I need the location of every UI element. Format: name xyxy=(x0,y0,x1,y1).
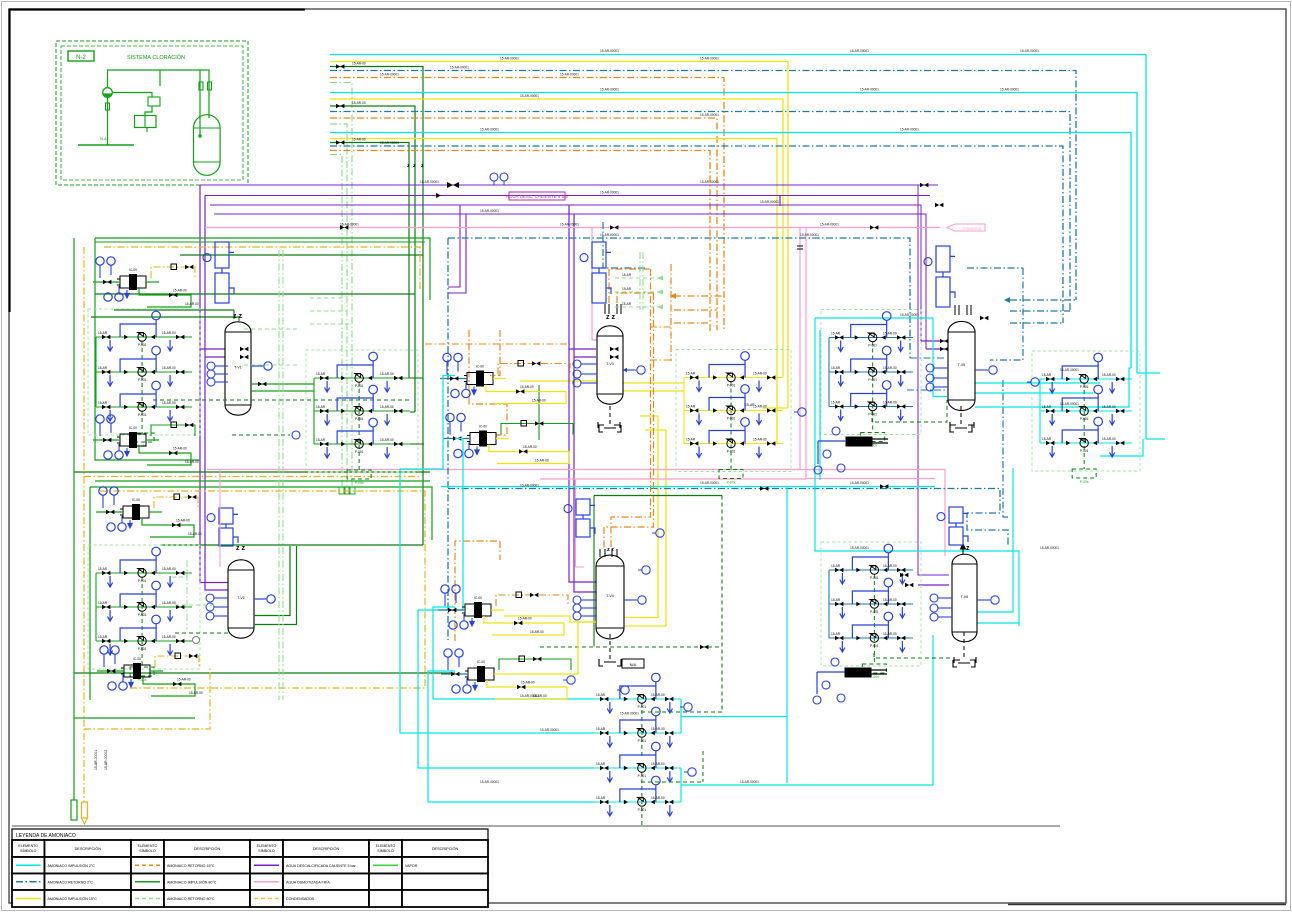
svg-text:P-001: P-001 xyxy=(638,808,647,812)
yellow pipe E8 to vessel4 xyxy=(507,622,596,674)
svg-text:15-AR-00001: 15-AR-00001 xyxy=(800,233,819,237)
teal dd drop mid xyxy=(603,222,645,268)
vessel1 outlet pipes xyxy=(251,383,314,385)
vessel V4 support xyxy=(609,634,611,659)
green dashed bottom right L xyxy=(874,653,950,658)
svg-text:15-AR-00001: 15-AR-00001 xyxy=(520,94,539,98)
yellow pipe E7 to vessel4 xyxy=(504,616,596,622)
left block1 orange box xyxy=(104,247,420,290)
svg-text:15-AR-00: 15-AR-00 xyxy=(162,601,176,605)
svg-text:T-V2: T-V2 xyxy=(237,596,244,600)
vessel V6 xyxy=(952,554,977,642)
svg-text:15-AR-00: 15-AR-00 xyxy=(753,372,767,376)
svg-text:15-AR-00: 15-AR-00 xyxy=(162,401,176,405)
svg-text:ELEMENTO: ELEMENTO xyxy=(138,844,158,848)
pump group PG3 xyxy=(676,350,791,485)
svg-text:15-AR-00: 15-AR-00 xyxy=(162,567,176,571)
svg-text:15-AR: 15-AR xyxy=(316,372,326,376)
svg-text:15-AR-00: 15-AR-00 xyxy=(521,681,535,685)
svg-text:AMONIACO IMPULSIÓN 15°C: AMONIACO IMPULSIÓN 15°C xyxy=(48,896,98,901)
svg-text:15-AR-00: 15-AR-00 xyxy=(1102,437,1116,441)
teal stub labels right top xyxy=(1010,299,1076,301)
bus group 1 teal retorno xyxy=(330,71,1076,301)
svg-text:15-AR-00: 15-AR-00 xyxy=(883,332,897,336)
svg-text:15-AR: 15-AR xyxy=(1042,405,1052,409)
svg-text:15-AR: 15-AR xyxy=(1042,373,1052,377)
green stub rows right of vessel3 xyxy=(615,277,660,279)
purple drops mid-left to E5 xyxy=(448,205,460,287)
green capsule end xyxy=(71,800,77,820)
purple agua descalcificada lines xyxy=(200,184,938,186)
svg-text:DESCRIPCIÓN: DESCRIPCIÓN xyxy=(194,846,221,851)
svg-text:15-AR: 15-AR xyxy=(596,693,606,697)
svg-text:AGUA DESCALCIFICADA CALIENTE 5: AGUA DESCALCIFICADA CALIENTE 5 bar xyxy=(286,864,357,868)
svg-text:15-AR-00: 15-AR-00 xyxy=(523,445,537,449)
bus group 3 orange xyxy=(330,151,710,333)
svg-text:15-AR-00001: 15-AR-00001 xyxy=(700,180,719,184)
svg-text:15-AR-00001: 15-AR-00001 xyxy=(620,712,639,716)
svg-text:ELEMENTO: ELEMENTO xyxy=(376,844,396,848)
svg-text:15-AR: 15-AR xyxy=(831,401,841,405)
svg-text:15-AR-00001: 15-AR-00001 xyxy=(600,49,619,53)
valve marks on purple xyxy=(447,182,459,188)
svg-text:15-AR-00001: 15-AR-00001 xyxy=(1040,546,1059,550)
bus group 3 teal xyxy=(330,146,1063,323)
mini pipe pump to tank xyxy=(112,93,152,98)
svg-text:15-AR-00: 15-AR-00 xyxy=(352,101,366,105)
svg-text:15-AR-00001: 15-AR-00001 xyxy=(450,66,469,70)
violet label box agua xyxy=(509,192,565,200)
pink drop to vessel2 xyxy=(219,470,221,568)
svg-text:P-001: P-001 xyxy=(1080,385,1089,389)
svg-text:P-001: P-001 xyxy=(727,450,736,454)
svg-text:P-00x: P-00x xyxy=(727,481,736,485)
svg-text:15-AR-00: 15-AR-00 xyxy=(176,519,190,523)
exchanger group E5 xyxy=(440,353,570,403)
pink drop to vessel4 xyxy=(576,479,585,567)
svg-text:15-AR-00001: 15-AR-00001 xyxy=(860,88,879,92)
svg-text:15-AR-00: 15-AR-00 xyxy=(162,331,176,335)
green bottom-mid L xyxy=(594,495,722,497)
pump group PG7a xyxy=(594,673,681,759)
svg-text:SÍMBOLO: SÍMBOLO xyxy=(20,849,37,853)
purple stubs into vessel5 xyxy=(921,340,945,342)
teal stub PG4 vessel5 xyxy=(907,389,945,391)
svg-text:15-AR-00001: 15-AR-00001 xyxy=(1000,88,1019,92)
green long line under block2 xyxy=(74,672,455,674)
svg-text:15-AR: 15-AR xyxy=(98,401,108,405)
mini vertical to pump valve xyxy=(107,97,109,145)
svg-text:15-AR-00: 15-AR-00 xyxy=(380,405,394,409)
vessel4 side instruments xyxy=(581,599,596,601)
teal dd right drop x1003 xyxy=(1003,380,1010,517)
bus group 1 cyan impulsion xyxy=(330,55,1146,440)
svg-text:P-001: P-001 xyxy=(638,705,647,709)
green dash PG4 to vessel5 xyxy=(872,400,947,422)
svg-text:15-AR-00: 15-AR-00 xyxy=(651,796,665,800)
svg-text:15-AR-00001: 15-AR-00001 xyxy=(520,694,539,698)
svg-text:P-001: P-001 xyxy=(870,610,879,614)
svg-text:15-AR-00001: 15-AR-00001 xyxy=(380,141,399,145)
legend table xyxy=(12,829,488,840)
box label tag xyxy=(68,51,94,61)
vessel3 right level xyxy=(623,369,636,371)
palegreen risers left pair xyxy=(278,250,280,700)
pump group PG5 xyxy=(1032,351,1140,484)
svg-text:IC-00: IC-00 xyxy=(129,426,137,430)
svg-text:15-AR-00001: 15-AR-00001 xyxy=(850,481,869,485)
bus group 2 green xyxy=(330,106,415,412)
exchanger small right-bottom xyxy=(845,668,887,677)
bus group 3 cyan xyxy=(330,133,1131,369)
svg-text:15-AR-00: 15-AR-00 xyxy=(651,727,665,731)
bus group 3 palegreen xyxy=(330,155,342,488)
svg-text:15-AR-00: 15-AR-00 xyxy=(173,447,187,451)
vessel1 level stub xyxy=(251,365,263,367)
vessel2 level stub xyxy=(254,598,266,600)
svg-text:15-AR-00001: 15-AR-00001 xyxy=(480,780,499,784)
cyan feed E5 to PG7 row2 xyxy=(400,376,594,734)
svg-text:N-2: N-2 xyxy=(76,55,86,61)
vessel V5 support xyxy=(960,406,962,425)
svg-text:z: z xyxy=(421,163,424,169)
svg-text:DESCRIPCIÓN: DESCRIPCIÓN xyxy=(75,846,102,851)
bus group 1 yellow xyxy=(330,62,788,409)
svg-text:N.A.: N.A. xyxy=(100,136,108,141)
mini vessel xyxy=(194,115,221,176)
svg-text:P-001: P-001 xyxy=(355,384,364,388)
vessel2 outlet pipes xyxy=(254,546,290,616)
svg-text:15-AR-00: 15-AR-00 xyxy=(883,632,897,636)
yellow feed vessel3 left xyxy=(520,380,597,382)
pump group PG7b xyxy=(594,742,681,828)
bus group 3 green xyxy=(330,143,409,379)
svg-text:SISTEMA CLORACIÓN: SISTEMA CLORACIÓN xyxy=(127,54,185,61)
svg-text:P-001: P-001 xyxy=(138,343,147,347)
vessel4 nozzle ticks xyxy=(600,549,617,557)
svg-text:T-V3: T-V3 xyxy=(606,362,613,366)
cyan feed E7 to PG7 row1 xyxy=(433,607,594,699)
svg-text:CONDENSADOS: CONDENSADOS xyxy=(286,897,315,901)
green headers above vessel1 xyxy=(180,254,423,256)
orange capsule end xyxy=(82,802,88,818)
svg-text:OSMOSIS: OSMOSIS xyxy=(963,226,982,231)
svg-text:AMONIACO IMPULSIÓN 2°C: AMONIACO IMPULSIÓN 2°C xyxy=(48,863,96,868)
svg-text:SÍMBOLO: SÍMBOLO xyxy=(258,849,275,853)
mini top pipe xyxy=(108,70,210,118)
tick marks at green bus line starts xyxy=(336,64,344,68)
bus group 3 yellow xyxy=(330,139,777,444)
svg-text:P-001: P-001 xyxy=(870,644,879,648)
vessel5 right level xyxy=(975,369,988,371)
svg-text:15-AR: 15-AR xyxy=(831,564,841,568)
svg-text:15-AR-00: 15-AR-00 xyxy=(1102,373,1116,377)
vessel6 top arrow xyxy=(961,544,966,554)
left green boundary riser xyxy=(73,238,75,800)
svg-text:15-AR-00: 15-AR-00 xyxy=(883,366,897,370)
svg-text:15-AR-00: 15-AR-00 xyxy=(520,385,534,389)
mini elbow fitting xyxy=(148,97,160,106)
svg-text:AMONIACO IMPULSIÓN 80°C: AMONIACO IMPULSIÓN 80°C xyxy=(167,879,217,884)
vessel1 side instruments xyxy=(215,365,228,367)
mini valve v1 xyxy=(199,82,203,90)
purple instrument circles xyxy=(490,173,498,181)
svg-text:P-001: P-001 xyxy=(868,413,877,417)
svg-text:15-AR: 15-AR xyxy=(596,727,606,731)
bus group 2 orange xyxy=(330,118,717,330)
svg-text:15-AR-00001: 15-AR-00001 xyxy=(600,191,619,195)
mini baseline xyxy=(78,144,134,146)
svg-text:P-001: P-001 xyxy=(1080,417,1089,421)
pale stubs left of pale risers xyxy=(310,297,342,299)
svg-text:15-AR: 15-AR xyxy=(622,287,632,291)
bus group 2 cyan xyxy=(330,93,1137,374)
pink agua osmotizada line xyxy=(205,227,940,229)
svg-text:VAPOR: VAPOR xyxy=(405,864,418,868)
svg-text:15-AR-00001: 15-AR-00001 xyxy=(1020,49,1039,53)
bus group 2 teal xyxy=(330,112,1070,312)
svg-text:ELEMENTO: ELEMENTO xyxy=(18,844,38,848)
svg-text:LEYENDA DE AMONIACO: LEYENDA DE AMONIACO xyxy=(16,833,76,839)
svg-text:T-V6: T-V6 xyxy=(961,595,968,599)
svg-text:15-AR: 15-AR xyxy=(831,332,841,336)
scattered valve tick pairs xyxy=(920,183,928,187)
svg-text:15-AR-00001: 15-AR-00001 xyxy=(1060,402,1079,406)
svg-text:15-AR-00001: 15-AR-00001 xyxy=(500,57,519,61)
svg-text:15-AR-00: 15-AR-00 xyxy=(189,691,203,695)
svg-text:15-AR: 15-AR xyxy=(316,438,326,442)
svg-text:N/A: N/A xyxy=(630,662,637,667)
svg-text:15-AR-00001: 15-AR-00001 xyxy=(740,780,759,784)
svg-text:15-AR-00: 15-AR-00 xyxy=(535,459,549,463)
svg-text:15-AR-00001: 15-AR-00001 xyxy=(850,49,869,53)
svg-text:P-001: P-001 xyxy=(638,739,647,743)
bus group 1 palegreen xyxy=(330,83,352,488)
vessel2 side instruments xyxy=(214,597,228,599)
svg-text:15-AR: 15-AR xyxy=(98,366,108,370)
cyan feed E8 to PG7 row4 xyxy=(428,671,594,802)
svg-text:15-AR-00: 15-AR-00 xyxy=(1102,405,1116,409)
svg-text:15-AR-00: 15-AR-00 xyxy=(352,62,366,66)
svg-text:15-AR-00001: 15-AR-00001 xyxy=(700,113,719,117)
vessel V3 xyxy=(597,326,623,404)
svg-text:15-AR-00001: 15-AR-00001 xyxy=(820,223,839,227)
svg-text:15-AR-00: 15-AR-00 xyxy=(380,438,394,442)
svg-text:15-AR: 15-AR xyxy=(686,372,696,376)
svg-text:15-AR: 15-AR xyxy=(622,302,632,306)
svg-text:15-AR-00: 15-AR-00 xyxy=(753,405,767,409)
orange loop bottom-mid cluster xyxy=(455,541,500,641)
svg-text:AGUA OSMOTIZADA FRÍA: AGUA OSMOTIZADA FRÍA xyxy=(286,880,330,884)
svg-text:P-00x: P-00x xyxy=(1080,480,1089,484)
svg-text:15-AR-00001: 15-AR-00001 xyxy=(900,128,919,132)
svg-text:15-AR-00: 15-AR-00 xyxy=(883,401,897,405)
svg-text:15-AR-00001: 15-AR-00001 xyxy=(420,180,439,184)
svg-text:P-001: P-001 xyxy=(355,450,364,454)
pale stubs near vessel2 xyxy=(186,560,188,630)
cyan stubs vessel6 xyxy=(977,468,1013,612)
pink flag arrow xyxy=(947,224,985,231)
pale vertical pair mid xyxy=(639,252,641,310)
svg-text:P-001: P-001 xyxy=(138,413,147,417)
vessel V6 support xyxy=(963,632,965,660)
exchanger group E4 xyxy=(97,646,203,696)
svg-text:AMONIACO RETORNO 80°C: AMONIACO RETORNO 80°C xyxy=(167,897,215,901)
svg-text:P-001: P-001 xyxy=(355,417,364,421)
pink long line y466 xyxy=(207,469,800,471)
svg-text:15-AR-00: 15-AR-00 xyxy=(651,762,665,766)
green header above vessel2 xyxy=(160,544,423,546)
svg-text:z: z xyxy=(413,163,416,169)
teal retorno big loop xyxy=(448,238,910,358)
svg-text:15-AR: 15-AR xyxy=(686,405,696,409)
svg-text:IC-00: IC-00 xyxy=(479,425,487,429)
mini valve v2 xyxy=(208,82,212,90)
svg-text:15-AR-00001: 15-AR-00001 xyxy=(760,200,779,204)
svg-text:IC-00: IC-00 xyxy=(476,365,484,369)
svg-text:AGUA DESC. CALIENTE 5 bar: AGUA DESC. CALIENTE 5 bar xyxy=(506,194,569,199)
bus group 1 orange retorno xyxy=(330,78,724,331)
svg-text:15-AR-00: 15-AR-00 xyxy=(177,678,191,682)
svg-text:ELEMENTO: ELEMENTO xyxy=(257,844,277,848)
svg-text:AMONIACO RETORNO 15°C: AMONIACO RETORNO 15°C xyxy=(167,864,215,868)
svg-text:15-AR: 15-AR xyxy=(316,405,326,409)
orange loop left of vessel3 xyxy=(425,343,570,345)
svg-text:15-AR: 15-AR xyxy=(831,632,841,636)
svg-text:IC-00: IC-00 xyxy=(129,268,137,272)
svg-text:SÍMBOLO: SÍMBOLO xyxy=(139,849,156,853)
svg-text:15-AR-00001: 15-AR-00001 xyxy=(900,313,919,317)
vessel V3 support xyxy=(609,406,611,425)
svg-text:15-AR: 15-AR xyxy=(98,331,108,335)
svg-text:15-AR-00001: 15-AR-00001 xyxy=(600,233,619,237)
svg-text:15-AR-00: 15-AR-00 xyxy=(883,564,897,568)
exchanger small right-top xyxy=(846,437,888,446)
left block1 green box xyxy=(95,238,430,300)
svg-text:P-001: P-001 xyxy=(868,378,877,382)
svg-text:15-AR-00001: 15-AR-00001 xyxy=(340,223,359,227)
mini dip tube xyxy=(199,70,201,135)
teal staircase to right cluster xyxy=(990,268,1023,360)
orange pair down to vessel4 xyxy=(611,269,651,549)
svg-text:P-001: P-001 xyxy=(138,613,147,617)
svg-text:15-AR-00001: 15-AR-00001 xyxy=(560,73,579,77)
exchanger group E3 xyxy=(96,487,202,537)
purple risers left to vessel1 and vessel2 xyxy=(200,185,228,583)
svg-text:15-AR-00: 15-AR-00 xyxy=(188,532,202,536)
svg-text:15-AR-00: 15-AR-00 xyxy=(518,617,532,621)
svg-text:T-V1: T-V1 xyxy=(234,366,241,370)
svg-text:P-001: P-001 xyxy=(868,344,877,348)
pump group PG2 xyxy=(88,545,200,682)
instrument coil C6 xyxy=(949,507,968,545)
exchanger group E2 xyxy=(93,415,199,465)
svg-text:z z: z z xyxy=(607,547,614,553)
svg-text:15-AR-00: 15-AR-00 xyxy=(532,399,546,403)
vessel V1 xyxy=(225,322,251,415)
bus group 2 palegreen xyxy=(330,124,347,487)
vessel V2 xyxy=(228,560,254,638)
exchanger group E8 xyxy=(441,649,571,699)
green bottom line xyxy=(74,717,195,719)
mini pump P1 xyxy=(103,88,113,98)
block1 bottom lines xyxy=(74,471,430,473)
svg-text:15-AR-00001: 15-AR-00001 xyxy=(700,57,719,61)
svg-text:15-AR-00001: 15-AR-00001 xyxy=(560,223,579,227)
cyan feed E6 to PG7 row3 xyxy=(418,439,594,769)
pink drop to vessel3 xyxy=(592,228,600,349)
green dash crossties PG7 xyxy=(641,711,722,713)
svg-text:SÍMBOLO: SÍMBOLO xyxy=(377,849,394,853)
pg0 right risers join xyxy=(410,377,423,379)
svg-text:15-AR: 15-AR xyxy=(98,567,108,571)
svg-text:z z: z z xyxy=(236,545,245,552)
exchanger group E6 xyxy=(443,413,573,463)
mini branch pipe xyxy=(159,70,161,86)
svg-text:15-AR: 15-AR xyxy=(596,762,606,766)
pink tick marks xyxy=(797,246,803,249)
bus group 1 green vapor xyxy=(330,67,424,445)
break marks palegreen ends xyxy=(339,487,345,494)
vessel V4 xyxy=(596,555,624,639)
vessel V5 xyxy=(948,321,975,410)
pump group PG1 xyxy=(88,309,200,448)
svg-text:P-00x: P-00x xyxy=(355,481,364,485)
svg-text:15-AR-00: 15-AR-00 xyxy=(185,460,199,464)
svg-text:T-V5: T-V5 xyxy=(958,363,965,367)
svg-text:15-AR-00001: 15-AR-00001 xyxy=(700,481,719,485)
svg-text:15-AR: 15-AR xyxy=(622,273,632,277)
svg-text:P-001: P-001 xyxy=(138,378,147,382)
svg-text:P-001: P-001 xyxy=(138,579,147,583)
svg-text:15-AR-00001: 15-AR-00001 xyxy=(600,88,619,92)
svg-text:15-AR-00001: 15-AR-00001 xyxy=(480,128,499,132)
svg-text:15-AR: 15-AR xyxy=(831,598,841,602)
orange bottom line xyxy=(84,668,210,729)
svg-text:P-001: P-001 xyxy=(727,384,736,388)
svg-text:15-AR-00001: 15-AR-00001 xyxy=(850,546,869,550)
orange loop above vessel3 xyxy=(609,269,651,303)
green dashed crossline block1 xyxy=(153,399,410,401)
purple riser right pair xyxy=(779,196,781,207)
svg-text:IC-00: IC-00 xyxy=(133,657,141,661)
svg-text:15-AR-00: 15-AR-00 xyxy=(651,693,665,697)
yellow risers PG3 outlets to vessel4 right xyxy=(622,416,658,618)
instrument coil C1 xyxy=(215,242,234,303)
svg-text:15-AR-00002: 15-AR-00002 xyxy=(104,750,108,770)
left block2 orange loop xyxy=(100,491,425,688)
svg-text:IC-00: IC-00 xyxy=(474,596,482,600)
svg-text:P-001: P-001 xyxy=(638,774,647,778)
cyan feed right-top cluster xyxy=(815,317,933,319)
pump group PG0 xyxy=(306,350,418,485)
svg-text:15-AR: 15-AR xyxy=(831,366,841,370)
svg-text:15-AR-00001: 15-AR-00001 xyxy=(380,73,399,77)
exchanger group E7 xyxy=(438,585,568,635)
yellow pipes vessel3 to mid pump group xyxy=(623,382,684,384)
svg-text:IC-00: IC-00 xyxy=(132,498,140,502)
instrument coil C4 xyxy=(576,499,595,537)
vessel4 right level xyxy=(624,599,637,601)
cyan into vessel5 bottom xyxy=(933,318,947,397)
svg-text:15-AR-00: 15-AR-00 xyxy=(173,289,187,293)
svg-text:15-AR-00: 15-AR-00 xyxy=(530,630,544,634)
svg-text:AMONIACO RETORNO 2°C: AMONIACO RETORNO 2°C xyxy=(48,880,94,884)
svg-text:15-AR-00: 15-AR-00 xyxy=(883,598,897,602)
svg-text:P-001: P-001 xyxy=(727,417,736,421)
svg-text:15-AR-00001: 15-AR-00001 xyxy=(540,728,559,732)
svg-text:P-001: P-001 xyxy=(870,576,879,580)
